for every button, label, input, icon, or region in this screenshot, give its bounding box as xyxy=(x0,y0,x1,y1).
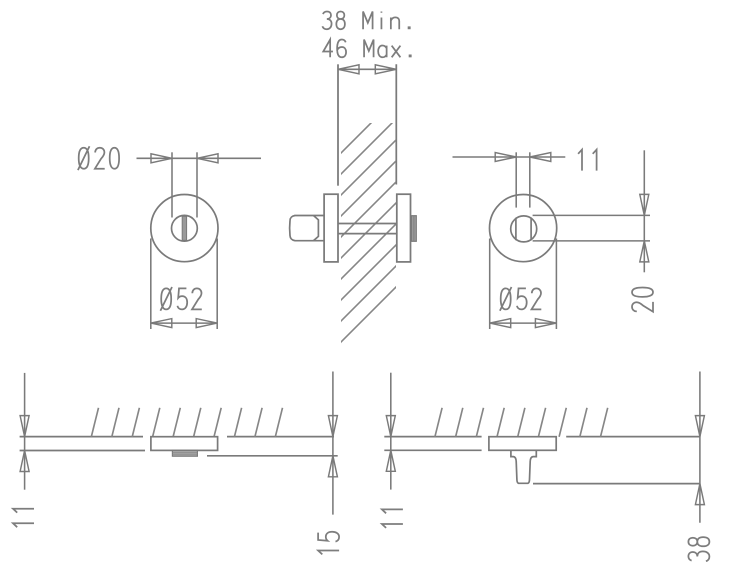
bottom-left view wall face line segment left xyxy=(20,436,143,438)
11 bottom-left arrowhead bottom (points up) xyxy=(20,451,29,472)
right rose front view: inner circle Ø20 xyxy=(511,216,537,242)
dimension text 38 (rotated) xyxy=(688,537,709,561)
11 arrowhead right (points left) xyxy=(530,153,551,162)
knob neck bottom line xyxy=(295,240,325,242)
arrowhead right (points right) xyxy=(375,65,396,74)
bolt shank upper line xyxy=(338,223,397,225)
20 extension line top xyxy=(533,214,650,216)
note text 46 Max. xyxy=(323,40,411,58)
11 bottom-left arrowhead top (points down) xyxy=(20,416,29,437)
15 arrowhead top (points down) xyxy=(328,416,337,437)
left rose front view: inner circle Ø20 xyxy=(172,215,198,241)
bottom-left view wall face line segment right xyxy=(227,436,334,438)
wall right face line (extension line for 38/46 dim) xyxy=(395,64,397,184)
left rose slot bar xyxy=(182,216,186,240)
arrowhead left (points left) xyxy=(338,65,359,74)
thumbturn knob outline xyxy=(511,450,536,483)
ø52 left extension line left xyxy=(150,239,152,330)
bolt shank lower line xyxy=(338,233,397,235)
dimension line 11 bottom-left (vertical) xyxy=(24,373,26,490)
wall hatching (section) xyxy=(311,0,683,372)
11 bottom-right arrowhead bottom (points up) xyxy=(386,450,395,471)
note text 38 Min. xyxy=(322,11,409,29)
ø52 left arrowhead left (points left) xyxy=(151,319,172,328)
button lamination line 1 xyxy=(172,451,197,453)
dimension line 20 (vertical) xyxy=(643,150,645,272)
dimension line 38 (vertical) xyxy=(699,372,701,523)
ø52 right extension line right xyxy=(555,239,557,330)
dimension line 11 bottom-right (vertical) xyxy=(390,373,392,490)
knob head outline xyxy=(290,216,319,241)
dimension text Ø52 left xyxy=(160,287,201,311)
right rose spindle flat left xyxy=(515,218,517,240)
11 extension line left xyxy=(515,152,517,207)
bottom-left release button (solid) xyxy=(172,450,197,456)
ø52 right extension line left xyxy=(489,239,491,330)
ø52 left extension line right xyxy=(216,239,218,330)
ø20 arrowhead right (points left) xyxy=(197,154,218,163)
right rose side view (rectangle) xyxy=(397,194,411,262)
ø20 extension line left xyxy=(171,152,173,217)
dimension line ø52 right xyxy=(490,322,557,324)
dimension text Ø20 xyxy=(78,146,119,170)
bottom-left rose side rectangle xyxy=(151,437,218,451)
bottom-right rose side rectangle xyxy=(489,437,556,451)
right rose front view: outer circle Ø52 xyxy=(489,195,556,262)
20 arrowhead bottom (points up) xyxy=(640,241,649,262)
ø20 arrowhead left (points right) xyxy=(151,154,172,163)
bottom-left rose surface reference line (11) xyxy=(20,450,145,452)
11 bottom-right arrowhead top (points down) xyxy=(386,416,395,437)
ø52 right arrowhead left (points left) xyxy=(490,319,511,328)
dimension text Ø52 right xyxy=(500,287,541,311)
11 extension line right xyxy=(529,152,531,207)
ø52 right arrowhead right (points right) xyxy=(535,319,556,328)
20 arrowhead top (points down) xyxy=(640,194,649,215)
dimension text 11 top xyxy=(578,150,597,171)
bottom-right thumbturn reference line (38) xyxy=(533,483,701,485)
bottom-left view hatching xyxy=(91,408,282,437)
left rose side view (rectangle) xyxy=(324,194,338,262)
dimension text 11 bottom-mid (rotated) xyxy=(382,509,403,528)
38 arrowhead bottom (points up) xyxy=(695,484,704,505)
wall left face line (extension line for 38/46 dim) xyxy=(337,64,339,185)
dimension line 11 top xyxy=(453,156,566,158)
dimension text 11 bottom-left (rotated) xyxy=(13,509,34,528)
right rose spindle flat right xyxy=(530,218,532,240)
grub knurl line xyxy=(413,216,415,242)
bottom-left button reference line (15) xyxy=(207,455,338,457)
11 arrowhead left (points right) xyxy=(495,153,516,162)
bottom-right view wall face line segment left xyxy=(384,436,481,438)
38 arrowhead top (points down) xyxy=(695,416,704,437)
dimension line ø52 left xyxy=(151,322,217,324)
bottom-right view hatching xyxy=(435,408,608,437)
20 extension line bottom xyxy=(533,240,650,242)
bottom-right view wall face line segment right xyxy=(566,436,700,438)
dimension line 38/46 xyxy=(338,68,396,70)
bottom-right rose surface reference line (11) xyxy=(384,449,481,451)
dimension text 15 (rotated) xyxy=(318,532,339,555)
knob neck top line xyxy=(295,215,325,217)
dimension line 15 (vertical) xyxy=(332,372,334,515)
threaded grub end (hatched strip) xyxy=(412,216,417,242)
ø20 extension line right xyxy=(196,152,198,217)
15 arrowhead bottom (points up) xyxy=(328,456,337,477)
dimension text 20 (rotated) xyxy=(632,288,653,312)
dimension line ø20 xyxy=(137,157,262,159)
button lamination line 2 xyxy=(172,453,197,455)
ø52 left arrowhead right (points right) xyxy=(196,319,217,328)
left rose front view: outer circle Ø52 xyxy=(151,195,218,262)
